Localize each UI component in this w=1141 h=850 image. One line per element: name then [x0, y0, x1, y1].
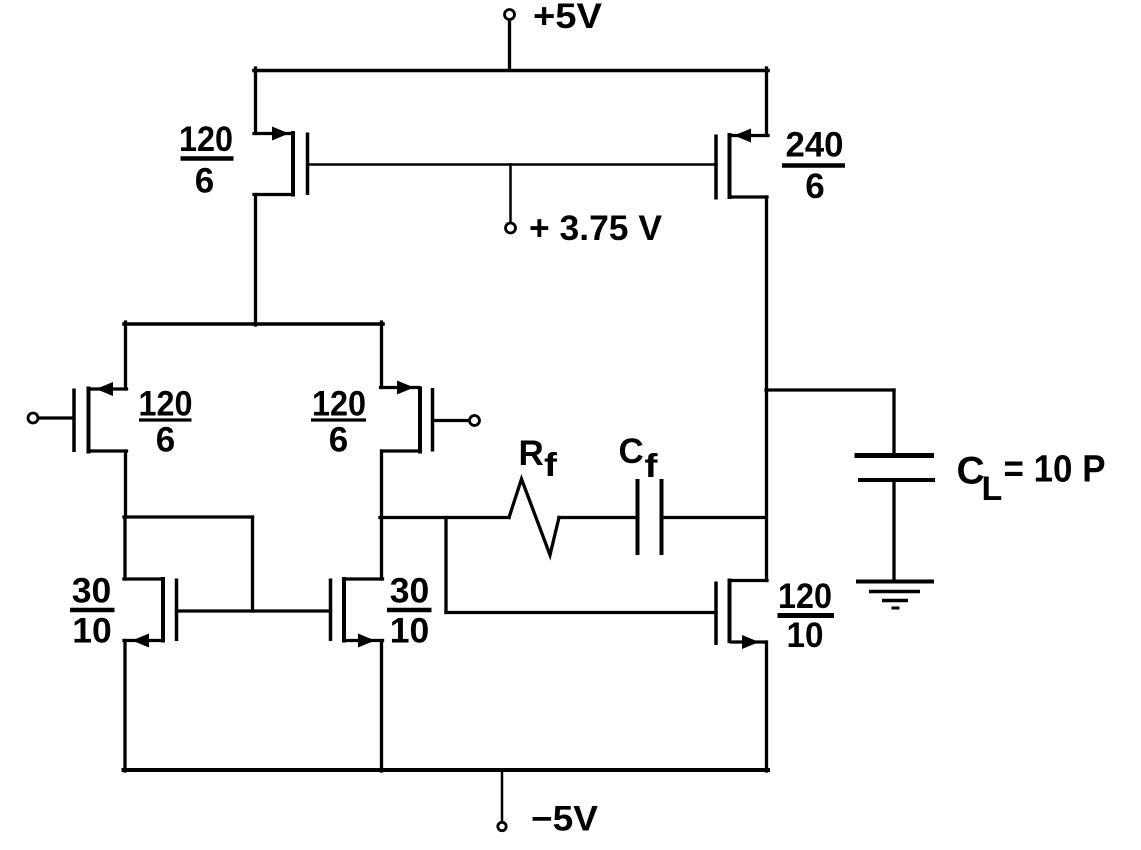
- svg-text:R: R: [519, 434, 544, 473]
- svg-text:120: 120: [139, 385, 193, 424]
- svg-text:6: 6: [329, 421, 348, 460]
- svg-text:f: f: [645, 447, 659, 484]
- svg-text:120: 120: [778, 577, 832, 616]
- svg-text:6: 6: [156, 421, 175, 460]
- svg-text:10: 10: [72, 612, 112, 651]
- svg-text:10: 10: [390, 612, 430, 651]
- svg-text:30: 30: [390, 572, 430, 611]
- svg-text:C: C: [619, 432, 644, 471]
- svg-text:= 10 P: = 10 P: [1004, 449, 1106, 491]
- svg-text:6: 6: [805, 167, 824, 206]
- svg-text:6: 6: [195, 162, 214, 201]
- svg-text:240: 240: [786, 126, 844, 165]
- svg-text:30: 30: [72, 572, 112, 611]
- svg-text:−5V: −5V: [531, 800, 599, 839]
- svg-text:C: C: [957, 450, 985, 493]
- svg-text:+5V: +5V: [533, 0, 603, 36]
- svg-text:120: 120: [179, 120, 233, 159]
- svg-text:L: L: [982, 470, 1003, 508]
- svg-text:10: 10: [787, 616, 824, 655]
- svg-text:120: 120: [312, 385, 366, 424]
- svg-text:+ 3.75 V: + 3.75 V: [529, 209, 663, 248]
- svg-text:f: f: [544, 446, 558, 483]
